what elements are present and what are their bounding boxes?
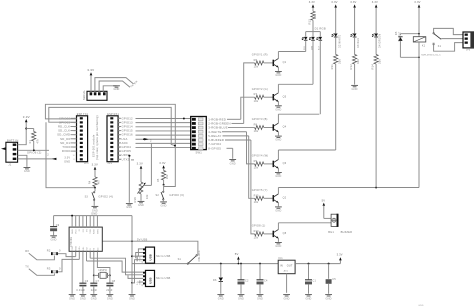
svg-text:NC: NC — [97, 247, 99, 251]
svg-text:Q4: Q4 — [283, 126, 287, 129]
svg-text:Q6: Q6 — [283, 162, 287, 165]
svg-text:GND: GND — [64, 161, 70, 164]
svg-text:IN: IN — [280, 264, 283, 267]
svg-text:RTS: RTS — [97, 229, 99, 234]
svg-text:XI: XI — [79, 229, 81, 231]
svg-text:10k: 10k — [254, 100, 259, 103]
svg-text:Q2: Q2 — [283, 197, 287, 200]
svg-text:XO: XO — [86, 247, 88, 250]
svg-text:GND: GND — [418, 305, 424, 307]
svg-text:3.3V: 3.3V — [64, 157, 70, 160]
svg-text:UD+: UD+ — [79, 245, 81, 250]
svg-text:GND: GND — [92, 209, 98, 212]
svg-text:4k7: 4k7 — [98, 179, 101, 184]
svg-text:UTXD: UTXD — [122, 157, 130, 161]
svg-text:GPIO5: GPIO5 — [122, 149, 132, 153]
svg-text:10k: 10k — [146, 194, 149, 199]
svg-text:GND: GND — [305, 297, 311, 300]
svg-text:ADC: ADC — [122, 141, 129, 145]
svg-text:GND: GND — [284, 297, 290, 300]
svg-text:GND: GND — [80, 297, 86, 300]
svg-text:JP2: JP2 — [107, 162, 112, 165]
svg-text:TXD0: TXD0 — [62, 145, 70, 149]
svg-text:GPIO16: GPIO16 — [122, 133, 134, 137]
svg-text:GND: GND — [113, 88, 119, 91]
svg-text:VCC: VCC — [76, 229, 78, 234]
svg-text:11: 11 — [73, 159, 75, 161]
svg-text:C1: C1 — [313, 279, 317, 282]
svg-text:R4: R4 — [89, 180, 92, 184]
svg-text:GND: GND — [352, 88, 358, 91]
svg-text:LNA: LNA — [122, 137, 128, 141]
svg-text:GPIO15: GPIO15 — [122, 129, 134, 133]
svg-text:UD-: UD- — [83, 246, 85, 250]
svg-text:X1: X1 — [142, 260, 144, 262]
svg-text:D2 WHITE: D2 WHITE — [338, 34, 341, 48]
svg-text:GND: GND — [161, 205, 167, 208]
svg-text:R5: R5 — [157, 178, 160, 182]
svg-text:GND: GND — [326, 297, 332, 300]
svg-text:GND: GND — [138, 204, 144, 207]
svg-text:RXD: RXD — [94, 229, 96, 234]
svg-text:R1: R1 — [29, 140, 32, 144]
svg-text:GND: GND — [69, 297, 75, 300]
svg-text:D3 RED: D3 RED — [357, 38, 360, 48]
svg-text:GND: GND — [275, 175, 281, 178]
svg-text:6-BUZZER: 6-BUZZER — [208, 138, 224, 142]
svg-text:Q8: Q8 — [283, 232, 287, 235]
svg-text:10: 10 — [73, 155, 75, 157]
svg-text:GND: GND — [126, 206, 132, 209]
svg-text:GND: GND — [51, 239, 57, 242]
svg-text:GPIO14: GPIO14 — [122, 125, 134, 129]
svg-text:GND: GND — [72, 229, 74, 234]
svg-text:12MHz: 12MHz — [98, 269, 107, 272]
svg-text:JP1: JP1 — [84, 162, 89, 165]
svg-text:47k: 47k — [37, 138, 40, 143]
svg-text:GND: GND — [91, 297, 97, 300]
svg-text:GND: GND — [129, 297, 135, 300]
svg-text:GPIO4: GPIO4 — [122, 145, 132, 149]
svg-text:3-RGB-BLUE: 3-RGB-BLUE — [208, 126, 228, 130]
svg-text:10k: 10k — [254, 66, 259, 69]
svg-text:C2: C2 — [245, 279, 249, 282]
svg-text:GND: GND — [275, 245, 281, 248]
svg-text:8-GPIO5: 8-GPIO5 — [208, 146, 221, 150]
svg-text:TXD: TXD — [90, 229, 92, 234]
svg-text:IC1: IC1 — [278, 257, 283, 260]
svg-text:RXD0: RXD0 — [62, 149, 71, 153]
svg-text:D6: D6 — [213, 279, 217, 282]
svg-text:10k: 10k — [254, 201, 259, 204]
svg-text:ESP TX1: ESP TX1 — [77, 113, 89, 116]
svg-text:K1: K1 — [438, 45, 442, 48]
svg-text:SD_D1: SD_D1 — [60, 141, 70, 145]
svg-text:Q1: Q1 — [283, 61, 287, 64]
svg-text:10k: 10k — [254, 130, 259, 133]
svg-text:JP4: JP4 — [466, 50, 471, 52]
svg-text:10k: 10k — [166, 174, 169, 179]
svg-text:X2: X2 — [142, 284, 144, 286]
svg-text:GND: GND — [238, 297, 244, 300]
svg-text:S1: S1 — [178, 258, 182, 261]
svg-text:RD_CLK: RD_CLK — [58, 125, 70, 129]
svg-text:GND: GND — [230, 162, 236, 165]
svg-text:SD_CMD: SD_CMD — [57, 133, 70, 137]
svg-text:3.3V: 3.3V — [87, 68, 94, 72]
svg-text:CH340G: CH340G — [70, 237, 73, 247]
svg-text:K1: K1 — [422, 45, 426, 48]
svg-text:3.3V: 3.3V — [23, 115, 30, 119]
svg-text:10k: 10k — [254, 237, 259, 240]
svg-text:2-RGB-GREEN: 2-RGB-GREEN — [208, 122, 230, 126]
svg-text:7-GPIO4: 7-GPIO4 — [208, 142, 221, 146]
svg-text:5-RELAY: 5-RELAY — [208, 134, 221, 138]
svg-text:C4: C4 — [264, 279, 268, 282]
svg-text:GPIO13: GPIO13 — [122, 120, 134, 124]
svg-text:VBUS: VBUS — [140, 256, 142, 262]
svg-text:USB: USB — [149, 254, 153, 261]
svg-text:SD_CLK: SD_CLK — [58, 129, 70, 133]
svg-text:GPIO00: GPIO00 — [59, 116, 71, 120]
svg-text:GND: GND — [275, 108, 281, 111]
svg-text:XI: XI — [90, 248, 92, 250]
svg-text:GND: GND — [107, 297, 113, 300]
svg-text:SD_D0: SD_D0 — [60, 137, 70, 141]
svg-text:10k: 10k — [254, 167, 259, 170]
svg-text:S2: S2 — [155, 194, 159, 197]
svg-text:D4 GREEN: D4 GREEN — [379, 34, 382, 48]
svg-text:OUT: OUT — [287, 264, 293, 267]
svg-text:SDR-05VDC-SL-C: SDR-05VDC-SL-C — [421, 55, 441, 57]
svg-text:GND: GND — [218, 297, 224, 300]
svg-text:GND: GND — [24, 170, 30, 173]
svg-text:USB: USB — [149, 277, 153, 284]
svg-text:GPIO6 (2): GPIO6 (2) — [27, 151, 42, 155]
svg-text:0.01uF: 0.01uF — [76, 289, 85, 292]
svg-text:GPIO12: GPIO12 — [122, 116, 134, 120]
svg-text:GND: GND — [275, 74, 281, 77]
svg-text:GPIO2 (4): GPIO2 (4) — [98, 195, 113, 199]
svg-text:C5: C5 — [332, 278, 336, 281]
svg-text:Q5: Q5 — [283, 95, 287, 98]
svg-text:ESP RX1: ESP RX1 — [107, 113, 119, 116]
svg-text:4-WHITE: 4-WHITE — [208, 130, 221, 134]
svg-text:GPIO0 (3): GPIO0 (3) — [169, 193, 184, 197]
svg-text:GND: GND — [257, 297, 263, 300]
svg-text:S3: S3 — [85, 195, 89, 198]
svg-text:GND: GND — [275, 139, 281, 142]
svg-text:5V: 5V — [235, 252, 239, 256]
svg-text:XO: XO — [83, 229, 85, 232]
svg-text:GND: GND — [275, 210, 281, 213]
svg-text:1-RGB-RED: 1-RGB-RED — [208, 117, 226, 121]
svg-text:TXD: TXD — [72, 246, 74, 251]
svg-text:RXD: RXD — [76, 246, 78, 251]
